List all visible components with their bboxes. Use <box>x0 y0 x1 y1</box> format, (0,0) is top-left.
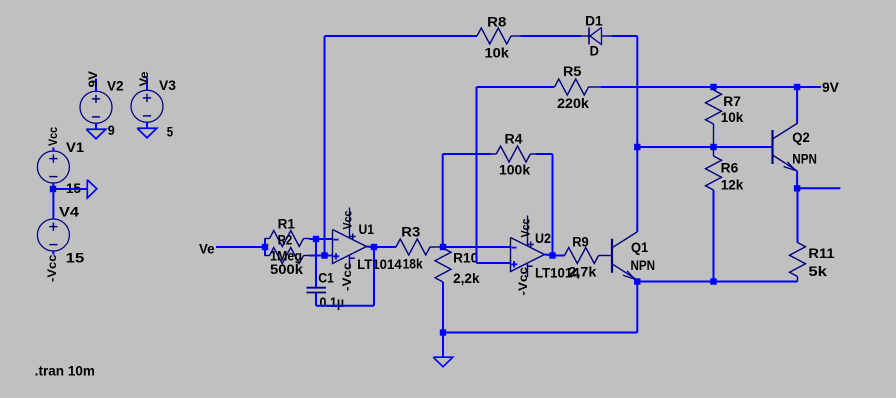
svg-text:R2: R2 <box>278 233 293 248</box>
svg-text:100k: 100k <box>499 163 531 178</box>
svg-text:R7: R7 <box>723 94 741 109</box>
svg-text:V3: V3 <box>159 78 177 93</box>
svg-text:Vcc: Vcc <box>343 210 355 230</box>
svg-text:V2: V2 <box>107 79 124 94</box>
svg-text:Ve: Ve <box>139 72 151 87</box>
svg-text:10k: 10k <box>721 110 744 125</box>
svg-text:-Vcc: -Vcc <box>518 266 530 295</box>
svg-text:R9: R9 <box>572 235 589 250</box>
svg-text:Ve: Ve <box>199 242 215 257</box>
svg-text:R1: R1 <box>278 217 296 232</box>
svg-text:Vcc: Vcc <box>520 218 532 238</box>
svg-text:.tran 10m: .tran 10m <box>35 364 95 379</box>
svg-text:-Vcc: -Vcc <box>47 254 59 282</box>
svg-text:NPN: NPN <box>631 258 656 273</box>
svg-text:V1: V1 <box>66 140 85 155</box>
svg-text:15: 15 <box>66 251 85 266</box>
svg-text:0.1µ: 0.1µ <box>320 295 345 310</box>
svg-text:10k: 10k <box>485 46 510 61</box>
svg-text:R11: R11 <box>808 246 835 261</box>
svg-text:9V: 9V <box>88 71 100 88</box>
svg-text:R4: R4 <box>505 132 524 147</box>
svg-text:R5: R5 <box>563 64 582 79</box>
svg-text:5: 5 <box>167 125 174 140</box>
svg-text:LT1014: LT1014 <box>357 257 402 272</box>
svg-text:Q1: Q1 <box>631 240 649 255</box>
svg-text:R3: R3 <box>401 225 420 240</box>
svg-text:2,2k: 2,2k <box>453 271 480 286</box>
svg-text:12k: 12k <box>721 178 744 193</box>
svg-text:D1: D1 <box>585 14 603 29</box>
svg-text:U1: U1 <box>359 222 375 237</box>
svg-text:V4: V4 <box>59 205 80 220</box>
svg-text:Vcc: Vcc <box>48 126 60 146</box>
svg-text:R10: R10 <box>453 251 478 266</box>
svg-text:2,7k: 2,7k <box>568 265 596 280</box>
svg-text:9: 9 <box>108 123 115 138</box>
svg-text:C1: C1 <box>318 271 334 286</box>
svg-text:R6: R6 <box>721 161 739 176</box>
svg-text:R8: R8 <box>487 15 507 30</box>
svg-text:D: D <box>590 44 600 59</box>
svg-text:U2: U2 <box>535 231 551 246</box>
svg-text:500k: 500k <box>270 262 304 277</box>
svg-text:18k: 18k <box>403 257 424 272</box>
svg-text:220k: 220k <box>557 96 589 111</box>
svg-text:9V: 9V <box>822 80 839 95</box>
svg-text:Q2: Q2 <box>792 130 810 145</box>
svg-text:5k: 5k <box>808 264 827 279</box>
svg-text:NPN: NPN <box>792 152 817 167</box>
svg-text:-Vcc: -Vcc <box>342 262 354 291</box>
